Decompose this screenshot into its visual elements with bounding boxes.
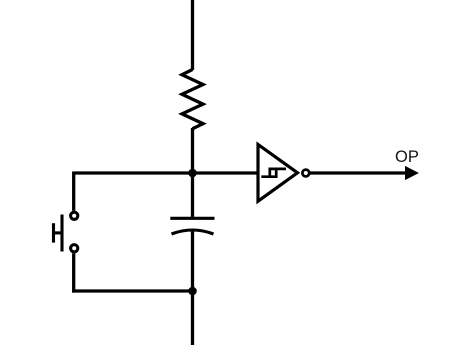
wire node A to inverter input bbox=[74, 171, 258, 174]
svg-text:OP: OP bbox=[395, 148, 419, 166]
switch S1 actuator bar bbox=[60, 215, 63, 252]
wire left vertical to switch top contact bbox=[72, 172, 75, 211]
capacitor C1 top plate bbox=[170, 217, 214, 220]
switch S1 bottom contact bbox=[71, 245, 78, 252]
wire switch bottom contact down bbox=[72, 253, 75, 292]
capacitor C1 curved plate bbox=[172, 230, 214, 234]
switch S1 actuator stem bbox=[54, 231, 63, 234]
hysteresis symbol lower stroke bbox=[261, 168, 276, 177]
wire inverter output to arrow bbox=[309, 171, 407, 174]
wire bottom horizontal to node B bbox=[72, 289, 192, 292]
wire top vertical into resistor bbox=[191, 0, 194, 70]
inverter output bubble bbox=[302, 170, 309, 177]
wire node A to capacitor top plate bbox=[191, 173, 194, 217]
node B junction dot bbox=[188, 287, 197, 296]
switch S1 top contact bbox=[71, 212, 78, 219]
resistor R1 bbox=[182, 70, 203, 129]
op-amp U1 schmitt trigger inverter triangle bbox=[258, 145, 298, 202]
output arrowhead bbox=[406, 167, 418, 180]
node A junction dot bbox=[188, 169, 197, 178]
wire capacitor to node B and bottom edge bbox=[191, 231, 194, 345]
wire resistor to node A bbox=[191, 128, 194, 174]
hysteresis symbol upper stroke bbox=[270, 169, 286, 178]
switch S1 button cap bbox=[52, 223, 55, 242]
